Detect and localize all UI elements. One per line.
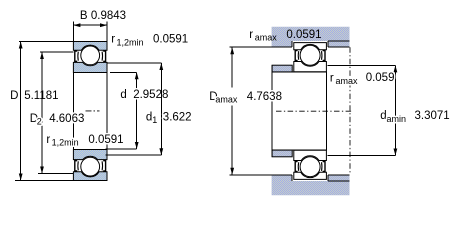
housing notch edges (291, 41, 293, 47)
svg-text:r: r (111, 34, 115, 46)
svg-text:r: r (330, 72, 334, 84)
left top section inner ring (73, 62, 107, 72)
right bottom section L shield (295, 162, 297, 172)
svg-text:3.622: 3.622 (163, 112, 192, 124)
right top section ball (300, 45, 320, 65)
left top section R shield (103, 51, 105, 61)
housing shoulder bottom edge + Da extension top (230, 46, 292, 48)
left bottom section R shield (103, 161, 105, 171)
right bottom section R shield (323, 162, 325, 172)
svg-text:amin: amin (387, 114, 407, 124)
left top section L shield (75, 51, 77, 61)
svg-text:0.059: 0.059 (366, 72, 395, 84)
housing lower block (272, 175, 350, 195)
left bottom section ball (81, 157, 100, 176)
shaft surface / bore line bottom (272, 149, 326, 151)
svg-text:5.1181: 5.1181 (24, 90, 58, 102)
svg-text:0.0591: 0.0591 (153, 34, 188, 46)
svg-text:amax: amax (255, 32, 278, 42)
svg-text:3.3071: 3.3071 (415, 110, 450, 122)
shaft end silhouette at bearing right face (325, 72, 327, 151)
right bottom section outer ring (294, 172, 327, 179)
shaft end face (271, 65, 273, 157)
right top section R shield (323, 51, 325, 61)
left bottom section L shield (75, 161, 77, 171)
d dimension (110, 71, 137, 73)
Da max dimension (231, 47, 233, 87)
right top section outer ring (294, 43, 327, 50)
shaft shoulder lower band (272, 150, 292, 157)
left bottom section inner ring (73, 150, 107, 160)
right top section L shield (295, 51, 297, 61)
left top section ball (81, 46, 100, 65)
D2 dimension (40, 51, 73, 53)
svg-text:d: d (120, 89, 126, 101)
svg-text:B: B (80, 10, 88, 22)
left axis centerline (86, 110, 100, 112)
shaft surface / bore line top (272, 71, 326, 73)
svg-text:0.9843: 0.9843 (91, 10, 126, 22)
svg-text:D: D (10, 90, 18, 102)
left bore edge right (106, 73, 108, 150)
housing bore line right of bearing (328, 40, 350, 42)
svg-text:2.9528: 2.9528 (133, 89, 168, 101)
da min dimension (328, 64, 396, 66)
svg-text:r: r (249, 29, 253, 41)
B dimension (72, 21, 74, 41)
svg-text:amax: amax (336, 76, 359, 86)
svg-text:amax: amax (215, 94, 238, 104)
housing upper block (272, 27, 350, 47)
svg-text:1,2min: 1,2min (52, 138, 79, 148)
left bore edge left (72, 73, 74, 150)
housing band lower edge right of bearing (328, 46, 350, 48)
svg-text:4.7638: 4.7638 (247, 91, 282, 103)
left bottom section outer ring (73, 172, 107, 181)
shaft shoulder upper band (272, 65, 292, 72)
D dimension (19, 41, 73, 43)
left figure: bearing cross-section (73, 42, 107, 73)
svg-text:2: 2 (37, 116, 42, 126)
right bottom section ball (300, 157, 320, 177)
d1 dimension (108, 62, 162, 64)
svg-text:0.0591: 0.0591 (88, 134, 123, 146)
right top section inner ring (294, 62, 327, 72)
svg-text:0.0591: 0.0591 (286, 29, 321, 41)
svg-text:4.6063: 4.6063 (49, 113, 84, 125)
left top section outer ring (73, 42, 107, 51)
svg-text:1,2min: 1,2min (117, 37, 144, 47)
right bottom section inner ring (294, 150, 327, 160)
svg-text:1: 1 (152, 115, 157, 125)
svg-text:r: r (46, 134, 50, 146)
right axis centerline (276, 110, 352, 112)
housing centerline vertical (349, 47, 351, 175)
